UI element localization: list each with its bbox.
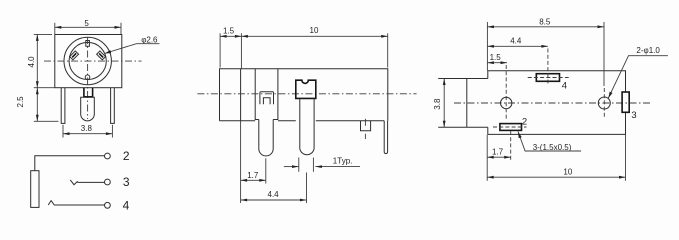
svg-text:10: 10 <box>310 26 319 35</box>
svg-text:1.5: 1.5 <box>223 27 235 36</box>
dimension 1.7 extension right dashed <box>510 131 512 160</box>
dimension 10 line top <box>241 35 387 37</box>
svg-text:4.4: 4.4 <box>510 37 522 46</box>
front view left contact slot <box>70 51 79 60</box>
dimension 1.7 extension line right <box>265 158 267 183</box>
top view hole 1 vertical centerline <box>505 65 507 120</box>
front view pin collar <box>84 88 93 97</box>
front view key notch <box>86 41 90 47</box>
svg-text:2.5: 2.5 <box>16 96 25 108</box>
front view body square <box>55 35 122 88</box>
dimension 1.7 line side view <box>241 179 266 181</box>
dimension 3.8 extension lines <box>62 125 64 138</box>
front view bottom small circle <box>85 75 90 80</box>
schematic switch contact wire 4 <box>48 201 104 205</box>
side view pin 1 <box>259 120 273 156</box>
top view slot 2 <box>500 124 522 131</box>
leader 3-slot arrow <box>518 132 522 139</box>
dimension 8.5 extension lines <box>486 22 488 71</box>
front view right contact slot <box>97 51 106 60</box>
dimension 10 extension right top view <box>625 135 627 181</box>
svg-text:3: 3 <box>631 110 636 121</box>
side view body rectangle <box>220 69 388 121</box>
svg-text:10: 10 <box>563 167 572 176</box>
dimension 3.8 arrows top view <box>443 79 446 86</box>
top view slot 4 <box>536 74 559 82</box>
dimension 4.4 extension line right <box>306 173 308 204</box>
leader 2-phi1.0 arrow <box>608 92 612 99</box>
dimension 4.4 line top view <box>487 45 548 47</box>
top view barrel <box>438 79 488 128</box>
side view pin 2 <box>300 98 314 154</box>
side view solder tab <box>361 121 371 131</box>
dimension 4.0 and 2.5 ticks <box>34 33 52 35</box>
top view main centerline <box>454 102 650 104</box>
svg-text:φ2.6: φ2.6 <box>141 35 158 44</box>
svg-text:4: 4 <box>562 81 567 92</box>
svg-text:3-(1.5x0.5): 3-(1.5x0.5) <box>533 143 572 152</box>
dimension 4.4 line side view <box>241 199 307 201</box>
dimension 1.7 extension left top view <box>486 135 488 181</box>
svg-text:8.5: 8.5 <box>539 17 551 26</box>
front view vertical centerline <box>87 37 89 119</box>
dimension 4.4 arrows top view <box>487 45 494 48</box>
schematic sleeve bar <box>31 171 39 208</box>
front view left leg <box>61 88 65 124</box>
dimension 5 line <box>55 26 121 28</box>
side view horizontal centerline <box>197 93 416 95</box>
dimension 5 arrows <box>55 26 62 29</box>
svg-text:4: 4 <box>123 199 130 213</box>
side view spring bracket inner <box>263 98 270 105</box>
leader 2-phi1.0 line <box>608 56 668 98</box>
dimension 2.5 arrows <box>36 88 39 95</box>
dimension 4.4 arrows side view <box>241 199 248 202</box>
dimension 1.5 arrows top view <box>487 61 494 64</box>
front view center pin <box>81 97 95 121</box>
top view slot 4 centerline <box>528 77 569 79</box>
dimension 3.8 arrows <box>63 132 70 135</box>
svg-text:1.7: 1.7 <box>247 171 259 180</box>
top view body rectangle <box>488 71 626 135</box>
svg-text:4.4: 4.4 <box>268 190 280 199</box>
svg-text:5: 5 <box>84 19 89 28</box>
dimension 8.5 line <box>487 26 604 28</box>
front view outer circle <box>64 37 111 84</box>
svg-text:3.8: 3.8 <box>433 98 442 110</box>
phi 2.6 leader arrow <box>105 50 112 53</box>
front view horizontal centerline <box>44 60 142 62</box>
front view right leg <box>111 88 115 124</box>
dimension 1.7 arrows top view <box>487 156 494 159</box>
dimension 3.8 line top view <box>443 79 445 128</box>
svg-text:2-φ1.0: 2-φ1.0 <box>636 46 660 55</box>
svg-text:2: 2 <box>522 116 527 127</box>
dimension 1.7 arrows side view <box>241 179 248 182</box>
dimension 8.5 arrows <box>487 25 494 28</box>
side view right pin <box>384 121 387 154</box>
top view hole 2 <box>598 97 610 109</box>
schematic terminal 2 circle <box>105 153 111 159</box>
schematic wire to terminal 2 <box>35 156 105 171</box>
svg-text:1.7: 1.7 <box>492 147 504 156</box>
svg-text:1.5: 1.5 <box>490 53 502 62</box>
dimension 10 line bottom top view <box>487 176 625 178</box>
dimension 1.5 arrows top <box>220 35 227 38</box>
leader 3-slot line <box>518 132 581 152</box>
svg-text:3: 3 <box>123 175 130 189</box>
side view tab centerline <box>364 119 366 139</box>
dimension 1.5 and 10 extension lines <box>219 33 221 67</box>
dimension 1.5 line top view <box>487 62 507 64</box>
schematic terminal 4 circle <box>105 202 111 208</box>
dimension 1 Typ arrow right <box>315 166 360 168</box>
dimension 1.5 line top <box>220 35 241 37</box>
phi 2.6 leader line <box>105 44 160 54</box>
dimension 10 arrows top <box>241 35 248 38</box>
svg-text:1Typ.: 1Typ. <box>333 156 353 165</box>
dimension 4.4 extension dashed <box>547 49 549 86</box>
svg-text:4.0: 4.0 <box>27 56 36 68</box>
top view slot 2 centerline <box>493 126 527 128</box>
dimension 3.8 line <box>63 133 112 135</box>
top view slot 3 <box>622 92 629 112</box>
side view spring bracket outer <box>260 92 274 105</box>
schematic terminal 3 circle <box>105 179 111 185</box>
dimension 1.7 line top view <box>487 156 511 158</box>
schematic switch contact wire 3 <box>70 180 104 185</box>
dimension 1.7 extension line left <box>240 121 242 203</box>
svg-text:2: 2 <box>123 149 130 163</box>
top view hole 2 vertical centerline <box>603 88 605 119</box>
front view inner circle <box>69 42 106 79</box>
svg-text:3.8: 3.8 <box>81 124 93 133</box>
dimension 4.0 line <box>36 34 38 87</box>
side view contact 1 housing <box>255 69 278 120</box>
dimension 1 Typ extension lines <box>298 158 300 172</box>
dimension 10 arrows bottom <box>487 176 494 179</box>
side view front panel divider <box>240 69 242 121</box>
dimension 4.0 arrows <box>36 34 39 41</box>
dimension 2.5 line <box>36 88 38 122</box>
top view hole 1 <box>501 97 512 108</box>
dimension 1 Typ arrow left <box>284 166 299 168</box>
dimension 5 extension lines <box>54 23 56 34</box>
side view contact 2 block <box>296 80 316 98</box>
